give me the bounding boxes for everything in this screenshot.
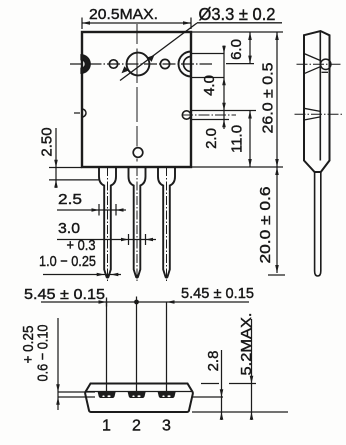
svg-text:26.0 ± 0.5: 26.0 ± 0.5 [260, 63, 277, 134]
svg-text:+ 0.3: + 0.3 [67, 237, 96, 254]
svg-text:5.45 ± 0.15: 5.45 ± 0.15 [181, 285, 254, 302]
svg-text:4.0: 4.0 [201, 75, 218, 96]
svg-text:5.45 ± 0.15: 5.45 ± 0.15 [24, 286, 105, 303]
svg-text:6.0: 6.0 [228, 39, 245, 60]
svg-text:2.50: 2.50 [39, 127, 56, 156]
svg-text:1: 1 [102, 418, 111, 435]
svg-text:3.0: 3.0 [58, 220, 80, 237]
svg-text:2: 2 [132, 418, 141, 435]
svg-text:0.6 − 0.10: 0.6 − 0.10 [35, 325, 52, 382]
svg-text:11.0: 11.0 [229, 125, 246, 153]
svg-text:2.5: 2.5 [58, 191, 82, 208]
svg-text:5.2MAX.: 5.2MAX. [238, 313, 255, 376]
svg-text:20.5MAX.: 20.5MAX. [89, 6, 158, 23]
svg-text:20.0 ± 0.6: 20.0 ± 0.6 [257, 187, 274, 264]
svg-text:Ø3.3 ± 0.2: Ø3.3 ± 0.2 [199, 4, 276, 24]
svg-text:3: 3 [162, 418, 171, 435]
svg-text:1.0 − 0.25: 1.0 − 0.25 [39, 253, 96, 270]
svg-text:2.8: 2.8 [205, 351, 222, 372]
svg-text:2.0: 2.0 [203, 128, 220, 149]
